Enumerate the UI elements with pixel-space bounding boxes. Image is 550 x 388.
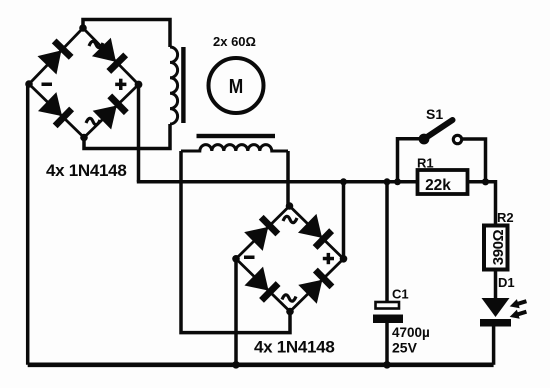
label bridge1 minus [42, 83, 53, 87]
bridge rectifier B2 diamond edges [236, 206, 344, 312]
svg-text:S1: S1 [426, 106, 443, 122]
wire bridge1 minus corner to bottom rail (left rail) [28, 84, 29, 365]
capacitor C1 plus plate (hollow) [376, 302, 400, 309]
node bottom rail / bridge2 minus [232, 361, 240, 369]
diode B2 bottom-right [298, 267, 335, 304]
wire R2 to LED D1 [494, 271, 498, 299]
node main rail / R1 right S1 right [482, 178, 489, 185]
node bridge2 bottom [286, 308, 294, 316]
node bridge2 right [340, 255, 348, 263]
node main rail / S1 left [394, 178, 401, 185]
label bridge2 ac bottom [282, 295, 296, 301]
label bridge1 plus [115, 79, 126, 90]
wire junction to R2 top [486, 182, 496, 225]
svg-text:R2: R2 [497, 210, 514, 225]
transformer core bar of L2 [197, 134, 276, 138]
LED D1 cathode bar [480, 319, 511, 327]
wire LED D1 to bottom rail [492, 325, 496, 365]
diode B1 top-left [37, 37, 74, 74]
svg-text:4x 1N4148: 4x 1N4148 [254, 338, 334, 357]
label bridge1 ac bottom [86, 118, 100, 124]
resistor R2 body [484, 226, 508, 270]
capacitor C1 minus plate (solid) [373, 315, 403, 324]
diode B2 bottom-left [244, 267, 281, 304]
bridge rectifier B1 diamond edges [29, 28, 139, 138]
wire switch S1 left lead [398, 139, 420, 182]
label bridge2 plus [323, 253, 334, 264]
label bridge2 ac top [283, 216, 297, 222]
LED D1 light arrow 1 [508, 297, 528, 311]
node bridge1 bottom [80, 134, 88, 142]
wire bridge2 minus corner down to bottom rail [234, 259, 238, 365]
label bridge1 ac top [89, 41, 103, 47]
svg-text:D1: D1 [498, 275, 515, 290]
node bridge1 top [79, 24, 87, 32]
node main rail / C1 [384, 178, 391, 185]
transformer core bar of L1 [181, 47, 185, 123]
wire switch S1 right lead [462, 139, 486, 182]
node bridge1 left [25, 80, 33, 88]
svg-text:2x 60Ω: 2x 60Ω [213, 34, 256, 49]
diode B1 top-right [92, 38, 129, 75]
wire C1 bottom lead [385, 322, 389, 365]
svg-text:4700µ: 4700µ [392, 325, 430, 340]
wire bridge2 plus corner up to main rail [342, 182, 346, 259]
node bridge2 top [286, 202, 294, 210]
svg-text:C1: C1 [392, 287, 409, 302]
svg-text:M: M [229, 76, 244, 98]
wire winding L2 right end down to bridge2 top [286, 151, 290, 206]
svg-text:22k: 22k [425, 177, 451, 194]
node bridge1 right [135, 81, 143, 89]
diode B1 bottom-right [93, 92, 130, 129]
node main rail / bridge2 plus [340, 178, 347, 185]
node bridge2 left [232, 255, 240, 263]
LED D1 triangle [482, 298, 510, 317]
wire bridge1 top to winding L1 top [83, 20, 170, 48]
wire bridge1 plus corner down to main node wire [137, 85, 141, 182]
svg-text:R1: R1 [417, 156, 434, 171]
wire winding L2 left end down (crosses main rail) to bridge2 bottom [181, 151, 290, 333]
wire C1 top lead [385, 182, 389, 302]
switch S1 open contact [453, 135, 461, 143]
svg-text:390Ω: 390Ω [490, 229, 507, 265]
wire R1 right to junction [468, 180, 486, 184]
motor M circle [209, 58, 264, 113]
node bottom rail / C1 [383, 361, 391, 369]
switch S1 lever [424, 120, 453, 139]
svg-text:25V: 25V [392, 340, 418, 356]
diode B1 bottom-left [38, 92, 75, 129]
winding L1 (2x 60 ohm motor coil, vertical) [170, 47, 178, 124]
switch S1 left contact [419, 134, 430, 145]
wire main positive rail [137, 180, 418, 184]
wire winding L1 bottom to bridge1 bottom [84, 124, 170, 149]
diode B2 top-left [244, 214, 281, 251]
winding L2 (horizontal) [181, 145, 288, 151]
label bridge2 minus [244, 256, 255, 260]
diode B2 top-right [298, 214, 335, 251]
wire bottom rail [28, 362, 494, 367]
LED D1 light arrow 2 [508, 307, 528, 321]
resistor R1 body [418, 170, 468, 194]
svg-text:4x 1N4148: 4x 1N4148 [46, 161, 126, 180]
